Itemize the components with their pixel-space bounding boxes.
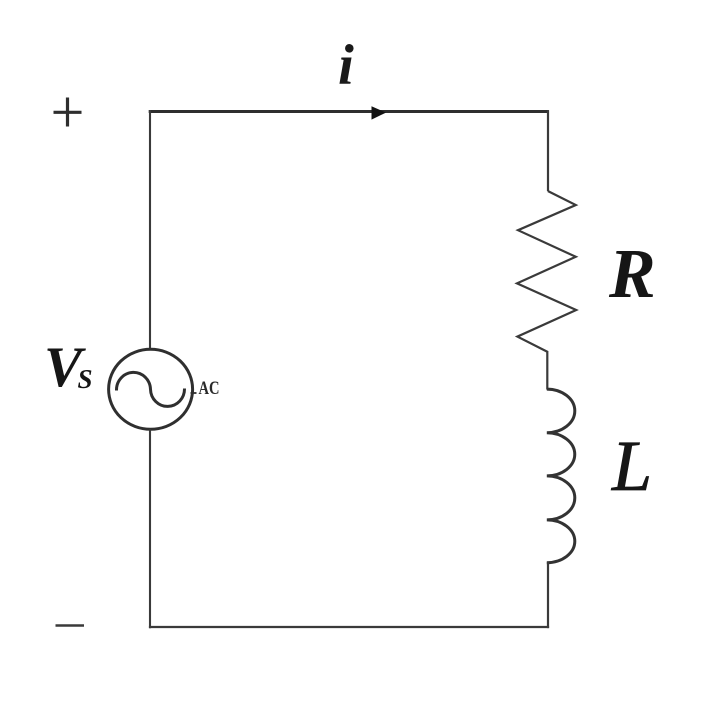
voltage source VS: sine wave symbol — [116, 372, 184, 406]
label R — [608, 236, 656, 313]
inductor L coils — [547, 389, 575, 563]
wire right lower (inductor to bottom corner) — [547, 562, 549, 628]
wire left upper (top corner down to source) — [149, 110, 151, 349]
resistor R zigzag — [517, 191, 576, 352]
svg-text:i: i — [338, 34, 354, 97]
wire bottom — [149, 626, 549, 628]
wire right middle (resistor to inductor) — [546, 351, 548, 390]
voltage source VS: right tick to AC label — [191, 392, 197, 394]
voltage source VS: circle body — [109, 349, 193, 429]
svg-text:S: S — [78, 364, 93, 394]
label AC — [199, 378, 220, 399]
svg-text:R: R — [608, 236, 656, 313]
label L — [611, 426, 652, 506]
wire top (left corner to right corner) — [149, 110, 549, 113]
svg-text:AC: AC — [199, 378, 220, 399]
wire right upper (top corner down to resistor) — [547, 110, 549, 191]
wire left lower (source down to bottom corner) — [149, 429, 151, 628]
minus terminal (-) — [56, 624, 85, 626]
label i — [338, 34, 354, 97]
current direction arrowhead (i) — [372, 106, 387, 119]
plus terminal (+) — [54, 98, 82, 127]
label Vs — [44, 336, 93, 399]
svg-text:L: L — [611, 426, 652, 506]
